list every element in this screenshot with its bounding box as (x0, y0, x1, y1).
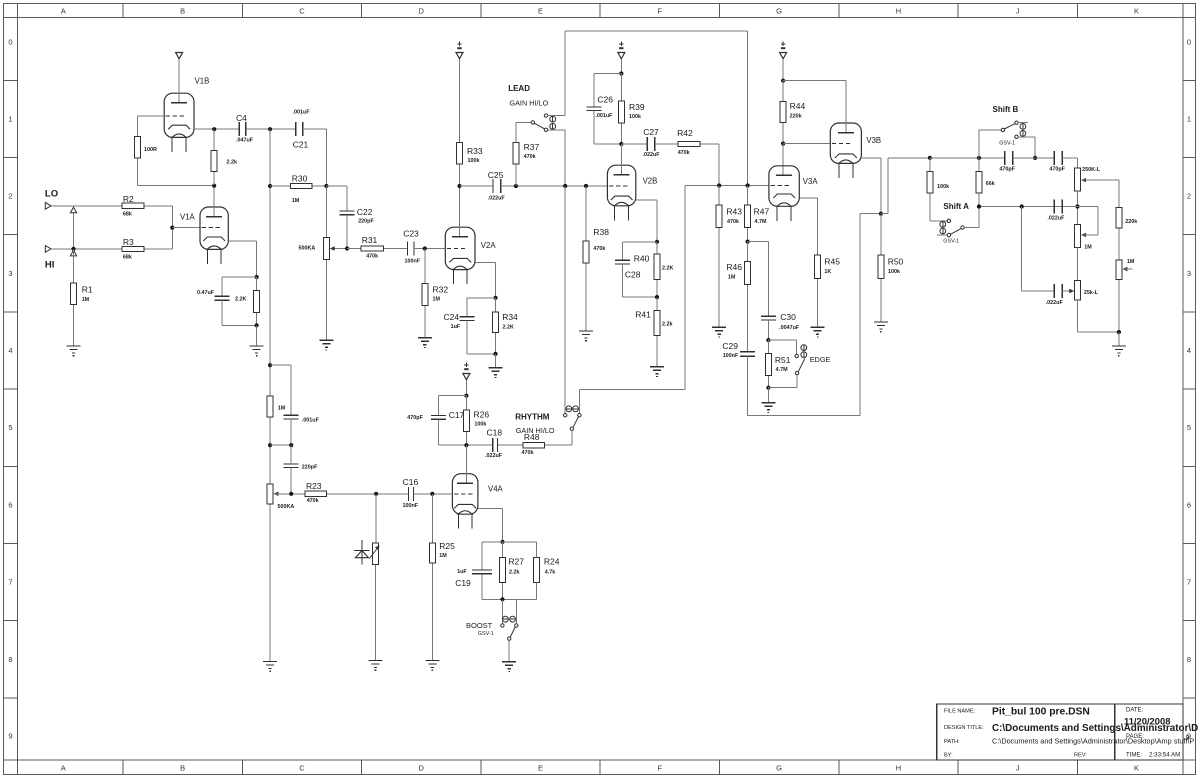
capacitor .022uF mid (1047, 200, 1065, 222)
wire to treble pot (1062, 158, 1077, 168)
wire to tone ground (1118, 332, 1120, 346)
wire shiftA common up to 66k (978, 207, 980, 228)
wire HI input to R3 (51, 248, 122, 250)
svg-text:470pF: 470pF (407, 415, 423, 421)
resistor R42 (655, 128, 719, 156)
wire R44 node to V3B grid (783, 143, 830, 145)
svg-text:C29: C29 (722, 341, 738, 351)
ground below R45 (811, 327, 825, 337)
wire V4A cathode out (478, 508, 503, 542)
svg-text:R26: R26 (474, 410, 490, 420)
junction HI net at R1 (71, 247, 75, 251)
wire R2 to V1A grid node (171, 206, 173, 228)
junction V2B plate node (619, 142, 623, 146)
wire cap chain lower (290, 445, 292, 494)
label GAIN HI/LO rhythm (516, 426, 555, 435)
svg-text:R44: R44 (790, 101, 806, 111)
wire C28 branch top (622, 242, 657, 260)
svg-text:2: 2 (1187, 192, 1191, 201)
svg-text:C19: C19 (455, 578, 471, 588)
svg-text:4: 4 (1187, 346, 1191, 355)
switch GSV-1 RHYTHM (564, 406, 582, 445)
wire C26 bottom branch (594, 111, 622, 145)
resistor R38 (583, 186, 609, 331)
junction V3B cathode node (879, 212, 883, 216)
svg-text:100nF: 100nF (405, 259, 421, 265)
capacitor 220pF bus (284, 464, 318, 471)
junction between 470pF caps (1033, 156, 1037, 160)
wire LEAD switch bottom down (564, 130, 566, 186)
wire V2A plate row through C25 (460, 185, 493, 187)
junction V1B cathode / 2.2k (212, 127, 216, 131)
svg-text:100nF: 100nF (403, 503, 419, 509)
wire C26 top branch (594, 74, 622, 107)
wire C24 branch top (467, 298, 495, 317)
svg-text:1K: 1K (824, 269, 831, 275)
junction R43 top (717, 183, 721, 187)
wire R42 down to grid row (718, 144, 720, 186)
wire LEAD switch top to bus (564, 31, 566, 116)
capacitor .022uF low (1046, 284, 1064, 306)
svg-text:RHYTHM: RHYTHM (515, 413, 550, 422)
svg-text:PATH:: PATH: (944, 739, 960, 745)
junction 100k tap (928, 156, 932, 160)
svg-text:1M: 1M (439, 553, 447, 559)
junction signal bus top (268, 127, 272, 131)
svg-text:DATE:: DATE: (1126, 708, 1144, 714)
junction V3A plate node (781, 142, 785, 146)
wire C18 to plate node (466, 444, 492, 446)
junction R38 tap (584, 184, 588, 188)
junction R25 tap (430, 492, 434, 496)
ground below R25 (425, 661, 439, 671)
svg-text:2.2K: 2.2K (662, 266, 673, 272)
svg-text:R1: R1 (82, 285, 93, 295)
wiper arrow 1M mid (1081, 207, 1098, 238)
svg-text:R40: R40 (634, 254, 650, 264)
ground below R50 (874, 322, 888, 332)
wire C23 to V2A grid (414, 248, 445, 250)
svg-text:3: 3 (1187, 269, 1191, 278)
junction R26 top (464, 394, 468, 398)
svg-text:1M: 1M (278, 406, 286, 412)
port arrow on HI net (70, 250, 76, 256)
junction V2A cathode bottom (493, 352, 497, 356)
svg-text:25k-L: 25k-L (1084, 290, 1099, 296)
potentiometer 25k-L (1075, 281, 1099, 301)
svg-text:.022uF: .022uF (1046, 300, 1064, 306)
svg-text:.001uF: .001uF (595, 113, 613, 119)
ground below V1A cathode (250, 346, 264, 356)
svg-text:.001uF: .001uF (302, 418, 320, 424)
wire V2B-grid-row drop to rhythm left contact (564, 186, 566, 414)
wire cap chain mid (270, 419, 291, 445)
svg-text:R30: R30 (292, 174, 308, 184)
input port LO (45, 202, 51, 209)
junction R51 bottom (766, 386, 770, 390)
junction 220pF bottom (289, 492, 293, 496)
triode V2B (607, 144, 657, 220)
capacitor C21 (293, 110, 311, 150)
wire to V3B plate (783, 80, 846, 82)
svg-text:C16: C16 (403, 477, 419, 487)
svg-text:C:\Documents and Settings\Admi: C:\Documents and Settings\Administrator\… (992, 737, 1194, 746)
wire cathode cap branch (222, 277, 257, 296)
switch GSV-1 Shift A (937, 219, 979, 244)
resistor R23 (305, 481, 376, 504)
resistor R2 (122, 194, 172, 218)
wire to ground V2A cathode (495, 354, 497, 368)
wire V3B cathode out (861, 158, 881, 214)
wire R51 to ground (767, 388, 769, 403)
resistor R34 (493, 298, 519, 354)
potentiometer 1M mid (1075, 225, 1093, 251)
wire C29 bottom to V3B cathode net (748, 214, 881, 416)
wire C17 top branch (439, 396, 467, 416)
svg-text:E: E (538, 7, 543, 16)
ground below left bus (263, 662, 277, 672)
triode V3A (769, 166, 818, 221)
resistor R24 (534, 557, 560, 583)
svg-text:E: E (538, 764, 543, 773)
resistor R41 (635, 297, 672, 367)
ground below R41 (650, 367, 664, 377)
junction R39/C26 top (619, 71, 623, 75)
wire top rail to V3A grid column (565, 31, 747, 185)
wire grid node to V1A (172, 227, 200, 229)
capacitor C4 (236, 113, 254, 144)
resistor R50 (878, 214, 904, 322)
svg-text:9: 9 (8, 732, 12, 741)
svg-text:470k: 470k (366, 254, 378, 260)
potentiometer 1M bass (1116, 259, 1135, 332)
resistor R37 (513, 142, 540, 186)
svg-text:R31: R31 (362, 235, 378, 245)
wire V1A cathode out (228, 241, 256, 277)
wire 100R bottom to plate node (138, 185, 215, 187)
svg-text:2.2K: 2.2K (235, 297, 246, 303)
resistor R40 (634, 242, 674, 297)
svg-text:9: 9 (1186, 735, 1190, 742)
wiper arrow 250K-L (1081, 178, 1119, 207)
wire to ground V1A cathode (256, 325, 258, 346)
wire cathode jog to output row (881, 158, 930, 214)
wire boost left drop (502, 599, 504, 624)
svg-text:R25: R25 (439, 541, 455, 551)
svg-text:R46: R46 (726, 262, 742, 272)
resistor R32 (422, 249, 449, 338)
svg-text:C23: C23 (403, 229, 419, 239)
junction V2B cathode bottom (655, 295, 659, 299)
svg-text:R39: R39 (629, 102, 645, 112)
label BOOST (466, 621, 493, 630)
svg-text:K: K (1134, 7, 1139, 16)
resistor 2.2k V1B cathode (211, 129, 237, 186)
resistor R1 (71, 249, 93, 346)
svg-text:.022uF: .022uF (1047, 216, 1065, 222)
junction C22/R31/wiper (345, 246, 349, 250)
junction R30 right node (324, 184, 328, 188)
wire edge switch bottom (768, 387, 797, 389)
resistor 1M bus (267, 396, 286, 417)
svg-text:470k: 470k (522, 450, 534, 456)
svg-text:R24: R24 (544, 557, 560, 567)
svg-text:Shift A: Shift A (943, 202, 969, 211)
svg-text:B: B (180, 7, 185, 16)
svg-text:2: 2 (8, 192, 12, 201)
svg-text:F: F (658, 764, 663, 773)
svg-text:R48: R48 (524, 432, 540, 442)
section label LEAD (508, 84, 530, 93)
junction V2A cathode top (493, 296, 497, 300)
svg-text:G: G (776, 764, 782, 773)
wire 100k to shiftA switch (930, 220, 947, 222)
wire arrow to R44 (782, 59, 784, 81)
wire R23 to C16 (376, 493, 408, 495)
capacitor C27 (643, 127, 661, 158)
svg-text:500KA: 500KA (299, 246, 316, 252)
input port HI (45, 246, 51, 253)
ground below R32 (418, 338, 432, 348)
potentiometer 250K-L treble (1075, 167, 1101, 191)
svg-text:.047uF: .047uF (236, 138, 254, 144)
svg-text:100R: 100R (144, 147, 157, 153)
resistor R3 (122, 237, 172, 261)
ground below R1 (67, 346, 81, 356)
svg-text:2:33:54 AM: 2:33:54 AM (1149, 752, 1180, 759)
wire rhythm common to R48 (544, 444, 572, 446)
capacitor .001uF bus (284, 415, 320, 423)
wire C19 branch top (482, 542, 503, 570)
wire LO/HI tie vertical (73, 206, 75, 249)
wire cap chain top (270, 365, 291, 415)
svg-text:C: C (299, 7, 305, 16)
junction cap chain mid (289, 443, 293, 447)
svg-text:Pit_bul 100 pre.DSN: Pit_bul 100 pre.DSN (992, 707, 1090, 718)
svg-text:6: 6 (8, 500, 12, 509)
title block (937, 704, 1198, 760)
svg-text:C18: C18 (487, 428, 503, 438)
svg-text:2.2k: 2.2k (227, 160, 238, 166)
svg-text:500KA: 500KA (278, 504, 295, 510)
junction bus at R30 row (268, 184, 272, 188)
potentiometer 500KA gain1 (299, 237, 330, 340)
svg-text:V3A: V3A (803, 177, 819, 186)
svg-text:A: A (61, 764, 66, 773)
label GAIN HI/LO lead (509, 99, 548, 108)
junction R51 top (766, 338, 770, 342)
power arrow V3 plates (780, 42, 787, 59)
wire trimmer drop (375, 494, 378, 661)
svg-text:8: 8 (8, 655, 12, 664)
wire R37 top to switch common (516, 122, 531, 142)
wire C19 bottom (482, 574, 503, 600)
ground below R43 (712, 327, 726, 337)
svg-text:1M: 1M (728, 275, 736, 281)
wire V3A cathode to R45 (799, 198, 817, 255)
svg-text:R3: R3 (123, 237, 134, 247)
capacitor C22 (340, 207, 375, 225)
label EDGE (810, 355, 831, 364)
resistor R45 (815, 255, 841, 327)
svg-text:1M: 1M (1084, 245, 1092, 251)
power arrow V4A plate (463, 363, 470, 380)
svg-text:R42: R42 (677, 128, 693, 138)
capacitor C17 (407, 410, 464, 421)
svg-text:1M: 1M (82, 297, 90, 303)
svg-text:470k: 470k (678, 150, 690, 156)
wire C17 bottom branch (439, 419, 467, 445)
svg-text:100nF: 100nF (723, 353, 739, 359)
svg-text:11/20/2008: 11/20/2008 (1124, 716, 1170, 727)
svg-text:R27: R27 (508, 557, 524, 567)
svg-text:C24: C24 (444, 312, 460, 322)
svg-text:8: 8 (1187, 655, 1191, 664)
diode (zener) (354, 540, 370, 565)
svg-text:R51: R51 (775, 355, 791, 365)
wire V2B cathode out (636, 200, 657, 242)
wire R30 node to C22 (326, 186, 347, 211)
wire grid row down to rhythm switch (579, 186, 685, 414)
junction R47 bottom node (746, 240, 750, 244)
triode V3B (830, 81, 881, 178)
capacitor C28 (615, 260, 641, 279)
svg-text:C21: C21 (293, 140, 309, 150)
svg-text:C22: C22 (357, 207, 373, 217)
resistor R33 (457, 59, 483, 186)
wire pot1 top (325, 186, 327, 237)
section label RHYTHM (515, 413, 550, 422)
triode V2A (445, 186, 496, 284)
svg-text:R37: R37 (524, 142, 540, 152)
wiper arrow 25k-L (1062, 289, 1074, 293)
svg-text:1uF: 1uF (451, 324, 461, 330)
svg-text:D: D (418, 764, 424, 773)
wire V2A cathode out (475, 262, 496, 297)
svg-text:470k: 470k (593, 246, 605, 252)
junction V1A cathode network bottom (255, 323, 259, 327)
wire V3A plate up (782, 144, 784, 166)
switch GSV-1 LEAD gain hi/lo (531, 114, 565, 132)
svg-text:250K-L: 250K-L (1082, 167, 1101, 173)
wiper arrow 1M bass (1122, 267, 1132, 271)
wire V3A grid row (685, 185, 769, 187)
wire row to second 470pF (1013, 157, 1054, 159)
junction V4A cathode bottom (500, 597, 504, 601)
capacitor 0.47uF V1A cathode (197, 290, 229, 300)
svg-text:7: 7 (1187, 578, 1191, 587)
svg-text:Shift B: Shift B (993, 105, 1019, 114)
svg-text:V1B: V1B (195, 77, 210, 86)
junction V3B plate branch (781, 79, 785, 83)
svg-text:BY:: BY: (944, 753, 953, 759)
wire C21 right down to R30 node (303, 129, 327, 186)
capacitor C18 (485, 428, 503, 460)
svg-text:LO: LO (45, 189, 58, 200)
svg-text:2.2k: 2.2k (662, 322, 673, 328)
port arrow on LO net (70, 207, 76, 213)
svg-text:68k: 68k (123, 212, 132, 218)
wire boost right drop (515, 599, 517, 624)
svg-text:D: D (418, 7, 424, 16)
svg-text:R45: R45 (824, 257, 840, 267)
svg-text:C28: C28 (625, 270, 641, 280)
svg-text:2.2k: 2.2k (509, 570, 520, 576)
svg-text:PAGE:: PAGE: (1126, 734, 1144, 740)
wire plate node to V4A (465, 445, 467, 474)
net label LO (45, 189, 58, 200)
wire shiftB bottom to row (1034, 137, 1036, 158)
svg-text:220pF: 220pF (302, 465, 318, 471)
svg-text:0.47uF: 0.47uF (197, 290, 215, 296)
svg-text:R23: R23 (306, 481, 322, 491)
resistor R25 (429, 494, 455, 661)
ground below tone stack (1112, 346, 1126, 356)
svg-text:470k: 470k (307, 498, 319, 504)
junction R37 bottom (514, 184, 518, 188)
wire C25 to V2B grid (501, 185, 608, 187)
wire C4 to C21 (246, 128, 296, 130)
svg-text:5: 5 (1187, 423, 1191, 432)
ground below R38 (579, 331, 593, 341)
svg-text:C4: C4 (236, 113, 247, 123)
svg-text:220pF: 220pF (358, 219, 374, 225)
svg-text:V2B: V2B (643, 177, 658, 186)
capacitor 470pF second (1049, 151, 1065, 173)
triode V1A (180, 186, 228, 264)
svg-text:220k: 220k (1125, 219, 1137, 225)
wire mid pot to 25k pot (1077, 248, 1079, 281)
svg-text:REV:: REV: (1074, 753, 1087, 759)
wire cathode cap to bottom (222, 300, 257, 325)
ground below trimmer (369, 661, 383, 671)
capacitor C29 (722, 341, 755, 359)
junction mid row at pot column (1075, 204, 1079, 208)
junction 66k top (977, 156, 981, 160)
trimmer potentiometer (370, 543, 380, 564)
junction LEAD drop on grid row (563, 184, 567, 188)
svg-text:EDGE: EDGE (810, 355, 831, 364)
svg-text:B: B (180, 764, 185, 773)
wire low branch down (1022, 207, 1054, 292)
ground below 500KA pot (319, 340, 333, 350)
junction bus lower cap tap (268, 443, 272, 447)
wire treble pot to mid pot (1077, 191, 1079, 225)
svg-text:470pF: 470pF (1049, 167, 1065, 173)
svg-text:1M: 1M (433, 297, 441, 303)
resistor R44 (780, 81, 805, 144)
svg-text:5: 5 (8, 423, 12, 432)
triode V1B (164, 59, 209, 152)
wire C30 to R51 node (767, 320, 769, 340)
wire arrow to R39 top (620, 59, 622, 74)
section label Shift A (943, 202, 969, 211)
svg-text:0: 0 (8, 37, 12, 46)
svg-text:R47: R47 (754, 207, 770, 217)
capacitor C26 (586, 95, 613, 120)
svg-text:C25: C25 (488, 170, 504, 180)
resistor 66k (976, 158, 995, 207)
svg-text:470pF: 470pF (999, 167, 1015, 173)
svg-text:DESIGN TITLE:: DESIGN TITLE: (944, 725, 984, 731)
ground below BOOST switch (502, 662, 516, 672)
resistor R51 (765, 340, 790, 388)
svg-text:H: H (896, 764, 901, 773)
junction V4A plate node (464, 443, 468, 447)
potentiometer 500KA gain2 (267, 484, 294, 661)
svg-text:V3B: V3B (866, 136, 881, 145)
junction R47 top (746, 183, 750, 187)
